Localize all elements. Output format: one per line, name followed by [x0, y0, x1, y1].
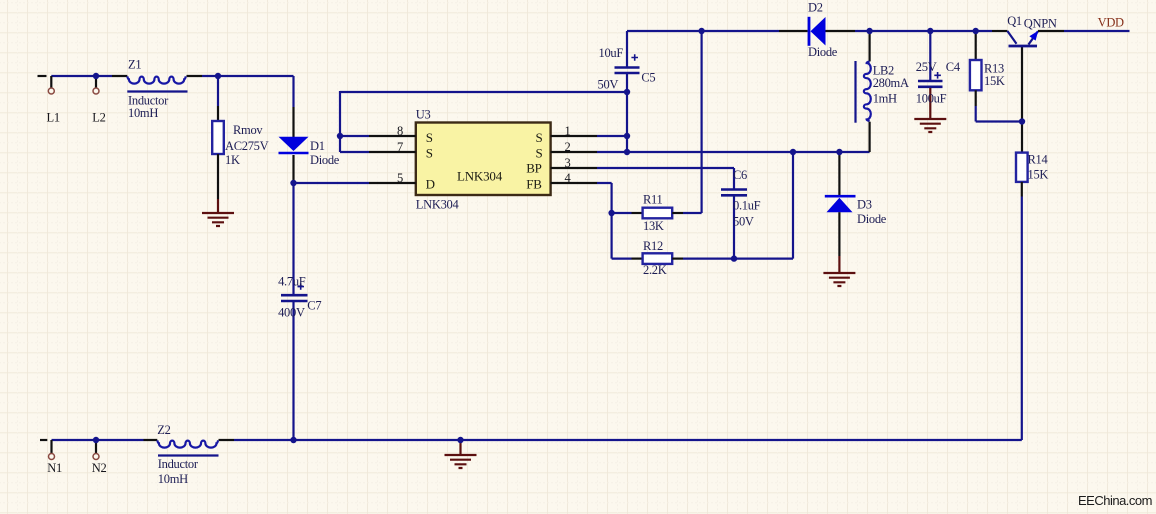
svg-text:VDD: VDD: [1098, 16, 1124, 30]
svg-text:D: D: [426, 176, 435, 191]
junction at C7 / neutral rail: [290, 437, 296, 443]
junction at DC rail / C4: [927, 28, 933, 34]
connector N1: [49, 440, 55, 460]
svg-text:10uF: 10uF: [599, 46, 624, 60]
svg-text:50V: 50V: [733, 215, 754, 229]
wire: U3 pin 1 to C5 vertical: [597, 135, 627, 137]
svg-text:Diode: Diode: [857, 212, 887, 226]
svg-text:EEChina.com: EEChina.com: [1078, 493, 1152, 508]
diode D3: [825, 153, 856, 256]
inductor LB2: [856, 31, 871, 152]
wire: U3 pin 2 net to LB2 bottom: [597, 151, 870, 153]
junction at N2: [93, 437, 99, 443]
wire: top DC rail from D2 to Q1: [855, 30, 992, 32]
svg-text:4: 4: [565, 171, 572, 185]
svg-text:5: 5: [397, 171, 403, 185]
U3 pin 5: [369, 182, 416, 184]
wire: FB column stub to R11 left: [612, 212, 632, 214]
wire: R14 bottom down to neutral rail: [1021, 197, 1023, 441]
svg-text:4.7uF: 4.7uF: [278, 275, 306, 289]
wire: D1 cathode to junction node: [292, 155, 294, 183]
connector N2: [93, 440, 99, 460]
wire: source loop vertical at left of U3: [339, 91, 341, 152]
svg-text:100uF: 100uF: [916, 92, 947, 106]
junction at L2: [93, 73, 99, 79]
wire: C5 vertical from top DC rail down to pin2 net: [626, 31, 628, 152]
wire: L rail from L1 to Z1: [51, 75, 112, 77]
svg-text:Diode: Diode: [808, 45, 838, 59]
wire: neutral rail N1 to Z2: [52, 439, 144, 441]
junction at DC rail / R11 riser: [698, 28, 704, 34]
svg-text:S: S: [426, 146, 433, 161]
svg-text:S: S: [536, 130, 543, 145]
connector L1: [48, 76, 54, 94]
inductor Z1 pins: [112, 75, 202, 77]
wire: R11 right up to top DC rail: [683, 31, 702, 213]
wire: neutral rail left tick: [40, 439, 47, 441]
svg-text:AC275V: AC275V: [225, 139, 269, 153]
svg-text:10mH: 10mH: [128, 106, 158, 120]
wire: AC live rail left tick: [38, 75, 47, 77]
power net VDD: [1098, 16, 1124, 30]
wire: D1 node down to C7: [292, 183, 294, 294]
svg-text:2: 2: [565, 140, 571, 154]
junction at DC rail / R13: [973, 28, 979, 34]
wire: U3 pin 4 (FB) to R11/R12 left column: [597, 183, 632, 259]
svg-text:QNPN: QNPN: [1024, 17, 1057, 31]
U3 pin 8: [369, 135, 416, 137]
wire: R12 right along bottom of C6 to pin2 net riser: [683, 152, 793, 259]
svg-text:Z2: Z2: [157, 423, 170, 437]
svg-text:R14: R14: [1028, 153, 1049, 167]
diode D2: [779, 17, 855, 46]
resistor R12: [632, 253, 684, 264]
ground under Rmov: [202, 199, 234, 226]
junction at R12/C6 riser on pin2 net: [790, 149, 796, 155]
svg-text:1: 1: [565, 124, 571, 138]
svg-text:13K: 13K: [643, 219, 664, 233]
svg-text:1mH: 1mH: [873, 92, 897, 106]
svg-text:50V: 50V: [598, 78, 619, 92]
svg-text:C5: C5: [641, 71, 655, 85]
junction at C6 bottom net: [731, 255, 737, 261]
capacitor C7: [281, 283, 308, 301]
ground on neutral rail: [445, 441, 477, 468]
diode D1: [279, 107, 309, 153]
svg-text:LNK304: LNK304: [457, 169, 503, 184]
svg-text:R11: R11: [643, 193, 663, 207]
svg-text:7: 7: [397, 140, 403, 154]
watermark EEChina.com: [1078, 493, 1152, 508]
wire: D1 anode vertical from top rail: [292, 76, 294, 107]
wire: stub to U3 pin 8: [340, 135, 369, 137]
junction at DC rail / LB2 top: [866, 28, 872, 34]
inductor Z1 coil: [127, 76, 187, 91]
svg-text:L1: L1: [47, 111, 60, 125]
wire: Q1 base node down to R14: [1021, 47, 1023, 153]
svg-text:D2: D2: [808, 1, 823, 15]
transistor Q1 QNPN: [992, 31, 1064, 46]
svg-text:15K: 15K: [984, 74, 1005, 88]
junction at ground / neutral rail: [457, 437, 463, 443]
capacitor C4: [918, 72, 943, 87]
svg-text:Diode: Diode: [310, 153, 340, 167]
svg-text:3: 3: [565, 156, 571, 170]
junction at D3 top: [836, 149, 842, 155]
inductor Z2 coil: [157, 440, 218, 455]
svg-text:L2: L2: [92, 111, 105, 125]
svg-text:8: 8: [397, 124, 403, 138]
resistor R11: [632, 208, 684, 219]
svg-text:Q1: Q1: [1007, 14, 1022, 28]
junction at pin 1 net: [624, 133, 630, 139]
resistor R13: [970, 31, 982, 106]
wire: neutral rail Z2 to R14 riser: [234, 439, 1022, 441]
svg-text:N2: N2: [92, 461, 107, 475]
svg-text:N1: N1: [47, 461, 62, 475]
junction at C5 bottom / source loop: [624, 89, 630, 95]
IC U3 LNK304 body: [416, 123, 551, 196]
resistor R14: [1016, 153, 1028, 197]
svg-text:U3: U3: [416, 108, 431, 122]
svg-text:15K: 15K: [1028, 168, 1049, 182]
wire: source loop top horizontal to C5 node: [340, 91, 627, 93]
svg-text:C6: C6: [733, 168, 747, 182]
junction at D1 cathode node: [290, 180, 296, 186]
junction at U3 pin 8 tap: [337, 133, 343, 139]
connector L2: [93, 76, 99, 94]
wire: R13 bottom corner to Q1 base node: [976, 106, 1022, 122]
svg-text:C7: C7: [307, 299, 321, 313]
svg-text:D1: D1: [310, 139, 325, 153]
U3 pin 3: [551, 167, 597, 169]
svg-text:Z1: Z1: [128, 58, 141, 72]
svg-text:Inductor: Inductor: [158, 457, 199, 471]
wire: Z1 to D1 corner with Rmov tap: [202, 75, 294, 77]
U3 pin 4: [551, 182, 597, 184]
U3 pin 2: [551, 151, 597, 153]
svg-text:Rmov: Rmov: [233, 123, 263, 137]
svg-text:400V: 400V: [278, 306, 305, 320]
svg-text:S: S: [426, 130, 433, 145]
svg-text:1K: 1K: [225, 153, 240, 167]
junction at FB column / R11: [608, 210, 614, 216]
svg-text:R12: R12: [643, 239, 663, 253]
ground under C4: [914, 88, 946, 132]
ground under D3: [823, 256, 855, 286]
resistor Rmov: [212, 106, 224, 199]
svg-text:0.1uF: 0.1uF: [733, 199, 761, 213]
svg-text:BP: BP: [526, 161, 542, 176]
inductor Z2 pins: [144, 439, 235, 441]
wire: top DC rail from C5 to D2: [627, 30, 779, 32]
capacitor C6: [721, 190, 747, 196]
wire: C6 bottom lead: [733, 197, 735, 259]
wire: C4 top lead from DC rail: [929, 31, 931, 80]
svg-text:25V: 25V: [916, 60, 937, 74]
junction at pin 2 net: [624, 149, 630, 155]
junction at Rmov tap: [215, 73, 221, 79]
wire: Rmov top lead: [217, 77, 219, 106]
svg-text:D3: D3: [857, 198, 872, 212]
wire: C7 bottom to neutral rail: [292, 302, 294, 440]
svg-text:LNK304: LNK304: [416, 198, 460, 212]
wire: VDD rail after Q1 emitter: [1064, 30, 1130, 32]
svg-text:FB: FB: [526, 176, 542, 191]
wire: U3 pin 3 (BP) to C6: [597, 168, 734, 189]
svg-text:10mH: 10mH: [158, 472, 188, 486]
capacitor C5: [615, 54, 640, 73]
wire: D1 node to U3 pin 5: [294, 182, 370, 184]
svg-text:C4: C4: [946, 60, 961, 74]
wire: stub to U3 pin 7: [340, 151, 369, 153]
svg-text:S: S: [536, 146, 543, 161]
U3 pin 7: [369, 151, 416, 153]
U3 pin 1: [551, 135, 597, 137]
junction at Q1 base node: [1019, 118, 1025, 124]
svg-text:2.2K: 2.2K: [643, 263, 667, 277]
svg-text:280mA: 280mA: [873, 76, 909, 90]
